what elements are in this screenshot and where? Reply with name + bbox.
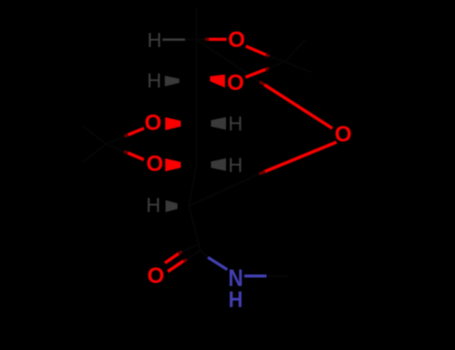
wire C1-O1 black half — [197, 38, 207, 40]
wire C6-N black bit — [201, 251, 208, 258]
wire C6-N blue half — [208, 257, 227, 269]
node N-H label — [229, 288, 243, 312]
wire H4 wedge (gray half) — [211, 158, 226, 171]
wire H1-C1 gray bond — [163, 38, 186, 40]
wire C1-O3 red half — [264, 85, 332, 129]
wire V2 methyl 1 — [83, 126, 106, 144]
svg-text:O: O — [227, 70, 244, 95]
svg-text:H: H — [146, 195, 160, 217]
wire acetal V1 black halves — [266, 55, 285, 62]
svg-text:O: O — [146, 151, 163, 176]
wire C6=O6 double bond line 2 — [165, 254, 179, 263]
wire O4-V2 red half — [128, 128, 144, 135]
wire C2-O2 red wedge half — [210, 75, 225, 88]
wire O1-V1 red half — [246, 46, 266, 55]
wire N-CH3 black half — [267, 275, 289, 277]
svg-text:H: H — [147, 71, 161, 93]
wire H5 wedge (gray half) — [166, 200, 178, 212]
svg-text:H: H — [147, 30, 161, 52]
wire C3-O4 red wedge half — [165, 117, 181, 130]
wire O2-V1 red half — [246, 69, 266, 77]
wire C5-O3 black half — [189, 174, 260, 206]
wire C6=O6 double bond line 1 — [168, 261, 184, 272]
wire C=O black continuations — [184, 251, 201, 262]
wire C3-C4 — [196, 124, 198, 165]
wire C1-C2 — [196, 39, 198, 80]
wire C2-C3 — [196, 81, 198, 124]
svg-text:O: O — [147, 263, 164, 288]
wire H3 wedge (gray half) — [211, 117, 226, 130]
svg-text:H: H — [228, 114, 242, 136]
wire C5-C6 — [189, 206, 201, 251]
wire H2 wedge (gray half) — [165, 76, 180, 87]
wire CH3 top to C1 — [196, 10, 198, 40]
wire C4-O5 red wedge half — [165, 158, 181, 171]
wire C1-O1 red half — [208, 38, 227, 41]
wire C1-H black half — [185, 39, 197, 41]
wire V2 methyl 2 — [83, 144, 106, 162]
wire C5-O3 red half — [264, 142, 337, 172]
wire V1 methyl 1 — [285, 40, 305, 62]
svg-text:H: H — [229, 288, 243, 312]
svg-text:H: H — [228, 155, 242, 177]
svg-text:O: O — [228, 27, 245, 52]
wire V1 methyl 2 — [285, 62, 311, 72]
svg-text:O: O — [144, 110, 161, 135]
wire C1-O3 black half — [197, 40, 260, 82]
svg-text:O: O — [335, 122, 352, 147]
wire O5-V2 red half — [128, 153, 144, 160]
wire N-CH3 blue half — [244, 275, 266, 278]
node N label — [228, 265, 243, 292]
wire: C-C backbone bonds (near-invisible dark) — [83, 10, 311, 277]
wire acetal V2 black halves — [106, 135, 128, 144]
wire C4-C5 — [189, 165, 197, 206]
